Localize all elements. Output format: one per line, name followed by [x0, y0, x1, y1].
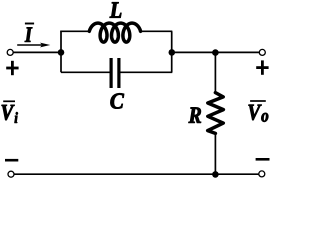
- terminal: output - (open circle): [259, 171, 265, 177]
- inductor L coil: [89, 23, 140, 42]
- overbar of Vo: [250, 100, 266, 102]
- terminal: output + (open circle): [259, 49, 265, 55]
- overbar of I: [25, 23, 34, 25]
- label Vi : i subscript: [15, 112, 18, 123]
- wire: bottom return: [14, 173, 259, 175]
- wire: top input from terminal to node A: [13, 51, 61, 53]
- wire: LC box left vertical: [60, 31, 62, 72]
- node: LC output junction dot: [169, 49, 176, 56]
- label C (capacitor): [111, 93, 125, 108]
- wire: LC box right vertical: [171, 31, 173, 72]
- label R (resistor): [189, 108, 202, 123]
- wire: resistor top stub: [214, 52, 216, 93]
- minus sign at input bottom: [5, 159, 18, 162]
- plus sign at output top: [256, 60, 268, 74]
- resistor R zigzag: [208, 93, 224, 134]
- current arrow head: [40, 43, 50, 48]
- capacitor C right plate: [117, 58, 120, 88]
- terminal: input - (open circle): [8, 171, 14, 177]
- wire: inductor branch right lead: [139, 30, 172, 32]
- wire: resistor bottom stub: [214, 133, 216, 174]
- overbar of Vi: [3, 100, 15, 102]
- wire: capacitor branch right lead: [120, 71, 172, 73]
- minus sign at output bottom: [256, 158, 270, 161]
- terminal: input + (open circle): [7, 49, 13, 55]
- plus sign at input top: [6, 61, 18, 75]
- wire: capacitor branch left lead: [61, 71, 110, 73]
- label Vi : V glyph: [2, 105, 15, 120]
- label Vo : V glyph: [249, 105, 262, 120]
- label I (current phasor): [25, 27, 33, 41]
- node: input junction dot: [58, 49, 65, 56]
- label L (inductor): [110, 2, 122, 17]
- node: resistor top junction dot: [212, 49, 219, 56]
- label Vo : o subscript: [261, 113, 268, 122]
- capacitor C left plate: [109, 58, 112, 88]
- wire: inductor branch left lead: [60, 30, 89, 32]
- current arrow shaft: [17, 44, 43, 46]
- node: resistor bottom junction dot: [212, 171, 219, 178]
- wire: output top to terminal: [172, 51, 260, 53]
